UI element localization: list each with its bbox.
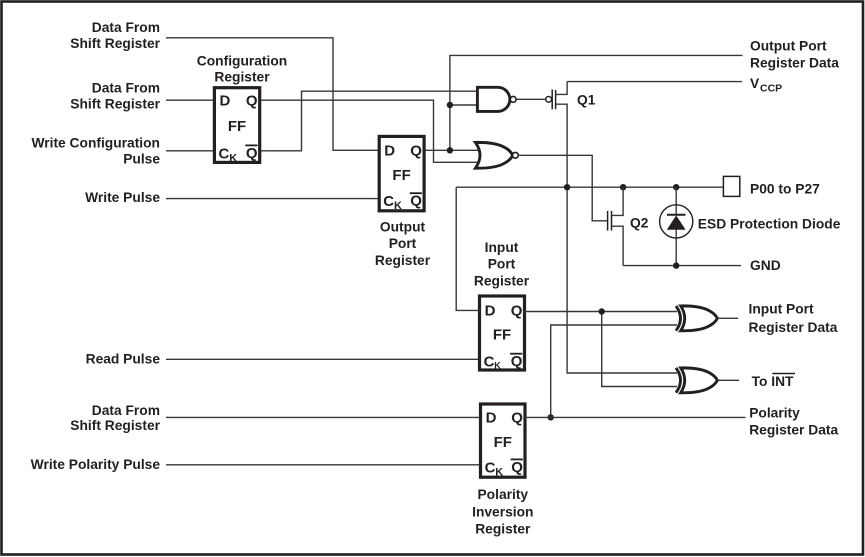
wire ESD diode vertical	[675, 187, 677, 265]
svg-text:Write Polarity Pulse: Write Polarity Pulse	[31, 457, 161, 472]
svg-text:GND: GND	[750, 258, 781, 273]
transistor Q1 (PMOS pass transistor)	[546, 82, 567, 188]
label Polarity Inversion Register	[472, 487, 533, 536]
net label Polarity Register Data	[749, 406, 838, 438]
junction Input FF Q net	[599, 308, 605, 314]
wire Polarity FF Q net up to XOR1 bottom input	[551, 325, 677, 417]
svg-text:Register: Register	[214, 70, 270, 85]
XOR gate (to INT)	[676, 368, 717, 393]
svg-text:Configuration: Configuration	[197, 54, 287, 69]
svg-text:Output Port: Output Port	[750, 39, 827, 54]
NAND gate	[477, 87, 516, 111]
svg-text:Pulse: Pulse	[123, 151, 160, 166]
svg-text:Q1: Q1	[577, 93, 596, 108]
svg-text:Write Configuration: Write Configuration	[31, 135, 160, 150]
svg-text:Register: Register	[475, 522, 531, 537]
transistor Q2 (NMOS)	[608, 187, 624, 265]
svg-text:Shift Register: Shift Register	[70, 418, 160, 433]
svg-text:Register Data: Register Data	[749, 423, 838, 438]
label Output Port Register	[375, 220, 431, 268]
wire XOR1 output	[717, 317, 738, 319]
svg-text:Register Data: Register Data	[750, 56, 839, 71]
wire NOR output to Q2 gate	[518, 155, 607, 221]
svg-text:K: K	[494, 361, 501, 371]
wire Data From Shift Register #1 to Output FF D input	[166, 38, 381, 151]
wire Data From Shift Register #2 to Config FF D input	[166, 99, 214, 101]
wire VCCP rail	[567, 81, 742, 83]
wire stub to NAND gate bottom input	[450, 104, 478, 106]
flip-flop Output Port Register	[379, 136, 424, 212]
svg-text:Write Pulse: Write Pulse	[85, 190, 160, 205]
svg-text:To INT: To INT	[752, 374, 794, 389]
junction on Output FF Q net at Q wire	[447, 147, 453, 153]
svg-text:Shift Register: Shift Register	[70, 36, 160, 51]
wire pin rail P00 to P27	[456, 186, 723, 188]
wire Input FF Q net down to XOR2 bottom input	[602, 312, 677, 387]
NOR gate	[475, 142, 518, 168]
svg-text:FF: FF	[493, 327, 511, 344]
svg-text:Shift Register: Shift Register	[70, 97, 160, 112]
svg-text:K: K	[229, 152, 237, 164]
net label Data From Shift Register (to polarity register D)	[70, 403, 160, 433]
pad P00 to P27	[723, 176, 739, 196]
svg-text:CCP: CCP	[760, 83, 782, 95]
svg-text:Register: Register	[375, 253, 431, 268]
svg-text:Data From: Data From	[92, 81, 160, 96]
svg-text:D: D	[220, 93, 231, 110]
net label Write Configuration Pulse	[31, 135, 160, 166]
wire Write Polarity Pulse to Polarity FF CK input	[166, 464, 481, 466]
wire riser from pin rail to Input FF D input	[456, 187, 479, 310]
svg-text:Register Data: Register Data	[749, 320, 838, 335]
net label Data From Shift Register (top, to output register D)	[70, 20, 160, 51]
svg-text:FF: FF	[494, 434, 512, 451]
svg-text:Q: Q	[410, 143, 422, 160]
wire Config FF Qbar output to NAND gate top input	[260, 91, 478, 151]
svg-text:Port: Port	[488, 257, 516, 272]
flip-flop Input Port Register	[480, 296, 525, 371]
ESD protection diode	[660, 205, 693, 238]
wire Write Pulse to Output FF CK input	[166, 198, 381, 200]
XOR gate (input port register data)	[676, 306, 717, 331]
svg-text:Q: Q	[511, 353, 523, 370]
junction pin rail / Q2 drain	[620, 184, 626, 190]
wire Output FF Q output to NOR gate top input	[424, 149, 478, 151]
svg-text:Q: Q	[511, 459, 523, 476]
wire Data From Shift Register #3 to Polarity FF D input	[166, 416, 481, 418]
svg-text:D: D	[486, 410, 497, 427]
net label Output Port Register Data	[750, 39, 839, 71]
svg-text:D: D	[384, 143, 395, 160]
net label Data From Shift Register (to configuration register D)	[70, 81, 160, 112]
svg-text:D: D	[485, 303, 496, 320]
wire pin net down to XOR2 top input	[567, 187, 677, 373]
svg-text:FF: FF	[228, 118, 246, 135]
svg-text:Input: Input	[485, 240, 519, 255]
junction on Output FF Q net at NAND input	[447, 102, 453, 108]
wire Config FF Q output to NOR gate bottom input	[260, 100, 478, 162]
svg-text:C: C	[219, 145, 230, 162]
svg-text:Q: Q	[246, 93, 258, 110]
svg-text:Input Port: Input Port	[749, 302, 815, 317]
svg-text:FF: FF	[392, 167, 410, 184]
wire Input FF Q output to XOR1 top input	[525, 311, 678, 313]
net label VCCP	[750, 76, 782, 95]
svg-text:Q: Q	[246, 145, 258, 162]
svg-text:Polarity: Polarity	[477, 487, 528, 502]
wire XOR2 output	[717, 379, 739, 381]
svg-text:Register: Register	[474, 273, 530, 288]
wire Write Configuration Pulse to Config FF CK input	[166, 150, 214, 152]
svg-text:Q: Q	[511, 410, 523, 427]
svg-text:Q2: Q2	[630, 215, 649, 230]
wire NAND output to Q1 gate	[516, 98, 546, 100]
junction pin rail / Q1 source	[564, 184, 570, 190]
svg-text:Port: Port	[389, 236, 417, 251]
svg-text:C: C	[383, 193, 394, 210]
label Input Port Register	[474, 240, 530, 288]
svg-text:Q: Q	[410, 193, 422, 210]
svg-text:K: K	[394, 200, 402, 212]
svg-text:C: C	[485, 459, 496, 476]
wire GND rail	[623, 265, 741, 267]
flip-flop Polarity Inversion Register	[481, 404, 526, 478]
junction Polarity FF Q net	[548, 414, 554, 420]
svg-text:Q: Q	[511, 303, 523, 320]
label Configuration Register	[197, 54, 287, 85]
junction GND rail / ESD diode	[673, 262, 679, 268]
svg-text:P00 to P27: P00 to P27	[750, 181, 820, 196]
svg-text:V: V	[750, 76, 760, 91]
svg-text:Output: Output	[380, 220, 426, 235]
wire Read Pulse to Input FF CK input	[166, 358, 480, 360]
svg-text:Read Pulse: Read Pulse	[86, 352, 161, 367]
net label Input Port Register Data	[749, 302, 838, 336]
svg-text:Data From: Data From	[92, 20, 160, 35]
svg-text:Data From: Data From	[92, 403, 160, 418]
wire Polarity FF Q output to Polarity Register Data	[525, 416, 746, 418]
flip-flop Configuration Register	[214, 88, 259, 165]
net label To INT	[752, 374, 795, 390]
svg-text:C: C	[484, 354, 495, 371]
wire Output FF Q net riser to Output Port Register Data	[450, 55, 743, 150]
svg-text:Inversion: Inversion	[472, 504, 533, 519]
svg-text:K: K	[495, 466, 503, 478]
svg-text:ESD Protection Diode: ESD Protection Diode	[698, 216, 841, 231]
svg-text:Polarity: Polarity	[749, 406, 800, 421]
junction pin rail / ESD diode	[673, 184, 679, 190]
